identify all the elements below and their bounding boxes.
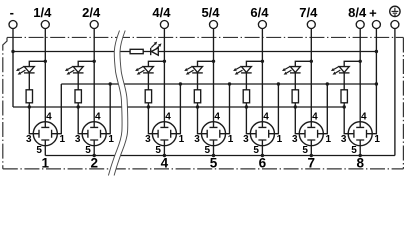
wire: 0V bus collecting LED resistors / pin 3 xyxy=(13,106,344,108)
svg-text:8/4: 8/4 xyxy=(348,5,367,20)
wire socket 1 pin 1 to +24V bus xyxy=(57,84,61,134)
svg-text:3: 3 xyxy=(26,134,32,145)
svg-text:1: 1 xyxy=(60,134,66,145)
svg-text:1: 1 xyxy=(108,134,114,145)
socket M12 connector 5 xyxy=(202,122,226,146)
svg-text:1: 1 xyxy=(42,155,50,170)
LED channel 8 indicator xyxy=(331,61,360,90)
terminal 6/4 xyxy=(258,21,266,29)
node 7/4 channel line (terminal to socket pin 4) xyxy=(310,28,312,122)
resistor (power indicator series resistor) xyxy=(130,49,143,53)
wire socket 5 pin 1 to +24V bus xyxy=(226,84,230,134)
svg-text:3: 3 xyxy=(145,134,151,145)
socket M12 connector 8 xyxy=(348,122,372,146)
terminal 4/4 xyxy=(160,21,168,29)
wire socket 7 pin 3 to 0V bus xyxy=(295,107,299,134)
svg-text:7: 7 xyxy=(308,155,316,170)
svg-text:4: 4 xyxy=(95,111,101,122)
wire socket 2 pin 1 to +24V bus xyxy=(106,84,110,134)
wire socket 7 pin 5 to PE bus xyxy=(310,146,312,156)
resistor channel 6 (LED series resistor) xyxy=(243,90,249,103)
terminal 1/4 xyxy=(41,21,49,29)
svg-text:1/4: 1/4 xyxy=(33,5,52,20)
terminal 2/4 xyxy=(90,21,98,29)
svg-text:5: 5 xyxy=(351,145,357,156)
socket M12 connector 1 xyxy=(33,122,57,146)
svg-text:8: 8 xyxy=(356,155,364,170)
svg-text:6: 6 xyxy=(259,155,267,170)
terminal 5/4 xyxy=(210,21,218,29)
node 1/4 channel line (terminal to socket pin 4) xyxy=(44,28,46,122)
svg-text:1: 1 xyxy=(277,134,283,145)
svg-text:1: 1 xyxy=(374,134,380,145)
svg-text:6/4: 6/4 xyxy=(250,5,269,20)
terminal 8/4 xyxy=(356,21,364,29)
socket numbers xyxy=(42,155,365,170)
svg-text:7/4: 7/4 xyxy=(299,5,318,20)
wire socket 1 pin 5 to PE bus xyxy=(44,146,46,156)
svg-text:4: 4 xyxy=(165,111,171,122)
wire socket 4 pin 5 to PE bus xyxy=(163,146,165,156)
svg-text:5: 5 xyxy=(155,145,161,156)
wire socket 8 pin 5 to PE bus xyxy=(359,146,361,156)
LED channel 1 indicator xyxy=(16,61,45,90)
socket pin labels xyxy=(26,111,380,155)
svg-text:3: 3 xyxy=(292,134,298,145)
svg-text:5: 5 xyxy=(210,155,218,170)
node 6/4 channel line (terminal to socket pin 4) xyxy=(261,28,263,122)
LED channel 2 indicator xyxy=(65,61,94,90)
wire: +24V bus feeding pin 1 of all sockets xyxy=(61,83,376,85)
resistor channel 7 (LED series resistor) xyxy=(292,90,298,103)
svg-text:3: 3 xyxy=(194,134,200,145)
svg-text:5: 5 xyxy=(253,145,259,156)
svg-text:2: 2 xyxy=(90,155,98,170)
wire: top supply wire (minus to plus, carries power LED) xyxy=(13,51,376,53)
wire: PE terminal drop to pin-5 bus xyxy=(394,28,396,155)
svg-text:1: 1 xyxy=(179,134,185,145)
resistor channel 1 (LED series resistor) xyxy=(26,90,32,103)
terminal 7/4 xyxy=(307,21,315,29)
svg-text:+: + xyxy=(369,6,377,21)
LED channel 7 indicator xyxy=(282,61,311,90)
socket M12 connector 2 xyxy=(82,122,106,146)
svg-text:4: 4 xyxy=(214,111,220,122)
wire socket 4 pin 3 to 0V bus xyxy=(148,107,152,134)
socket M12 connector 4 xyxy=(152,122,176,146)
wire socket 5 pin 5 to PE bus xyxy=(213,146,215,156)
svg-text:3: 3 xyxy=(243,134,249,145)
svg-text:3: 3 xyxy=(341,134,347,145)
svg-text:1: 1 xyxy=(326,134,332,145)
protective earth symbol xyxy=(390,6,400,16)
wire: + terminal drop / pin 1 of socket 8 xyxy=(372,28,376,133)
svg-text:4: 4 xyxy=(263,111,269,122)
node 8/4 channel line (terminal to socket pin 4) xyxy=(359,28,361,122)
svg-text:4/4: 4/4 xyxy=(152,5,171,20)
break (tear) lines hiding channel 3 xyxy=(111,31,125,176)
svg-text:5: 5 xyxy=(36,145,42,156)
wire socket 6 pin 3 to 0V bus xyxy=(246,107,250,134)
svg-text:3: 3 xyxy=(75,134,81,145)
LED channel 4 indicator xyxy=(135,61,164,90)
terminal - (0V feed) xyxy=(9,21,17,29)
wire socket 8 pin 3 to 0V bus xyxy=(344,107,348,134)
socket M12 connector 6 xyxy=(250,122,274,146)
svg-text:-: - xyxy=(10,5,14,20)
terminal + (24V feed) xyxy=(372,21,380,29)
wire socket 5 pin 3 to 0V bus xyxy=(198,107,202,134)
svg-text:4: 4 xyxy=(161,155,169,170)
svg-text:4: 4 xyxy=(312,111,318,122)
wire socket 4 pin 1 to +24V bus xyxy=(176,84,180,134)
wire socket 6 pin 5 to PE bus xyxy=(261,146,263,156)
wire: minus rail from terminal - down to 0V bus xyxy=(12,28,14,107)
node 5/4 channel line (terminal to socket pin 4) xyxy=(213,28,215,122)
resistor channel 2 (LED series resistor) xyxy=(75,90,81,103)
svg-text:1: 1 xyxy=(228,134,234,145)
terminal PE xyxy=(391,21,399,29)
svg-text:5: 5 xyxy=(302,145,308,156)
terminal labels xyxy=(10,5,377,21)
LED (green power indicator, pointing left) xyxy=(151,48,159,55)
svg-text:2/4: 2/4 xyxy=(82,5,101,20)
svg-text:5: 5 xyxy=(85,145,91,156)
svg-text:4: 4 xyxy=(361,111,367,122)
socket M12 connector 7 xyxy=(299,122,323,146)
enclosure border (dash-dot outline) xyxy=(3,37,404,168)
node 2/4 channel line (terminal to socket pin 4) xyxy=(93,28,95,122)
wire socket 1 pin 3 to 0V bus xyxy=(29,107,33,134)
resistor channel 5 (LED series resistor) xyxy=(194,90,200,103)
LED channel 6 indicator xyxy=(233,61,262,90)
node 4/4 channel line (terminal to socket pin 4) xyxy=(163,28,165,122)
svg-text:5: 5 xyxy=(205,145,211,156)
resistor channel 4 (LED series resistor) xyxy=(145,90,151,103)
wire socket 2 pin 3 to 0V bus xyxy=(78,107,82,134)
svg-text:5/4: 5/4 xyxy=(201,5,220,20)
wire socket 7 pin 1 to +24V bus xyxy=(323,84,327,134)
wire socket 2 pin 5 to PE bus xyxy=(93,146,95,156)
wire socket 6 pin 1 to +24V bus xyxy=(274,84,278,134)
resistor channel 8 (LED series resistor) xyxy=(341,90,347,103)
svg-text:4: 4 xyxy=(46,111,52,122)
LED channel 5 indicator xyxy=(184,61,213,90)
wire: PE / pin-5 bus along the bottom xyxy=(45,155,395,157)
